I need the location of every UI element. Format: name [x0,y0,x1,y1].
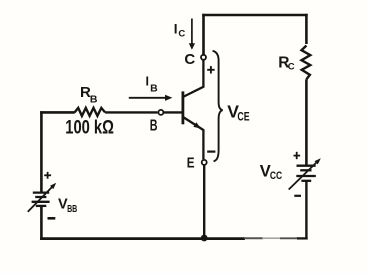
wire from top rail down to resistor RC [305,14,308,44]
svg-text:RB: RB [80,84,98,106]
node E terminal (open circle) [202,160,207,165]
current arrow IC [189,19,195,50]
wire from battery VCC down to bottom rail [305,181,307,240]
wire from resistor RC down to battery VCC [305,79,308,165]
svg-text:VCE: VCE [227,101,250,123]
svg-text:RC: RC [278,54,295,72]
wire top rail [202,14,308,17]
variable (adjust) arrow of VCC [289,158,321,189]
wire from emitter terminal E down to junction [203,165,205,238]
wire from collector terminal C up to top rail [202,14,205,55]
variable (adjust) arrow of VBB [28,183,56,212]
wire left rail: down from base wire to battery VBB [40,111,43,192]
wire bottom rail (right part faded in scan) [40,237,308,240]
svg-text:VBB: VBB [58,197,78,215]
wire from left rail corner to resistor RB [40,111,75,114]
label + of VBB [44,172,51,179]
battery VCC (variable source, 2 cells) [296,166,316,181]
label + of VCE [207,66,214,73]
transistor Q1 (NPN): base bar, collector lead, emitter lead with arrow [183,60,204,159]
junction dot: emitter wire meets bottom rail [201,235,208,242]
current arrow IB [129,95,173,101]
label - of VCC [294,195,301,197]
node C terminal (open circle) [201,55,206,60]
svg-text:B: B [150,118,158,135]
svg-text:IB: IB [146,75,159,95]
svg-text:E: E [187,155,195,172]
label + of VCC [294,152,301,159]
svg-text:VCC: VCC [260,162,282,182]
resistor RC [302,46,311,80]
svg-text:100 kΩ: 100 kΩ [65,118,114,139]
label - of VCE [207,151,215,153]
brace for VCE (between C and E) [213,51,223,162]
svg-text:C: C [184,51,195,68]
battery VBB (variable source, 2 cells) [32,193,50,206]
label - of VBB [48,217,56,220]
svg-text:IC: IC [174,22,186,40]
wire base: from B terminal to transistor base bar [164,111,182,113]
wire from resistor RB to B terminal [105,111,158,113]
wire from battery VBB down to bottom rail [40,206,43,240]
resistor RB [75,108,106,116]
node B terminal (open circle) [158,110,163,115]
